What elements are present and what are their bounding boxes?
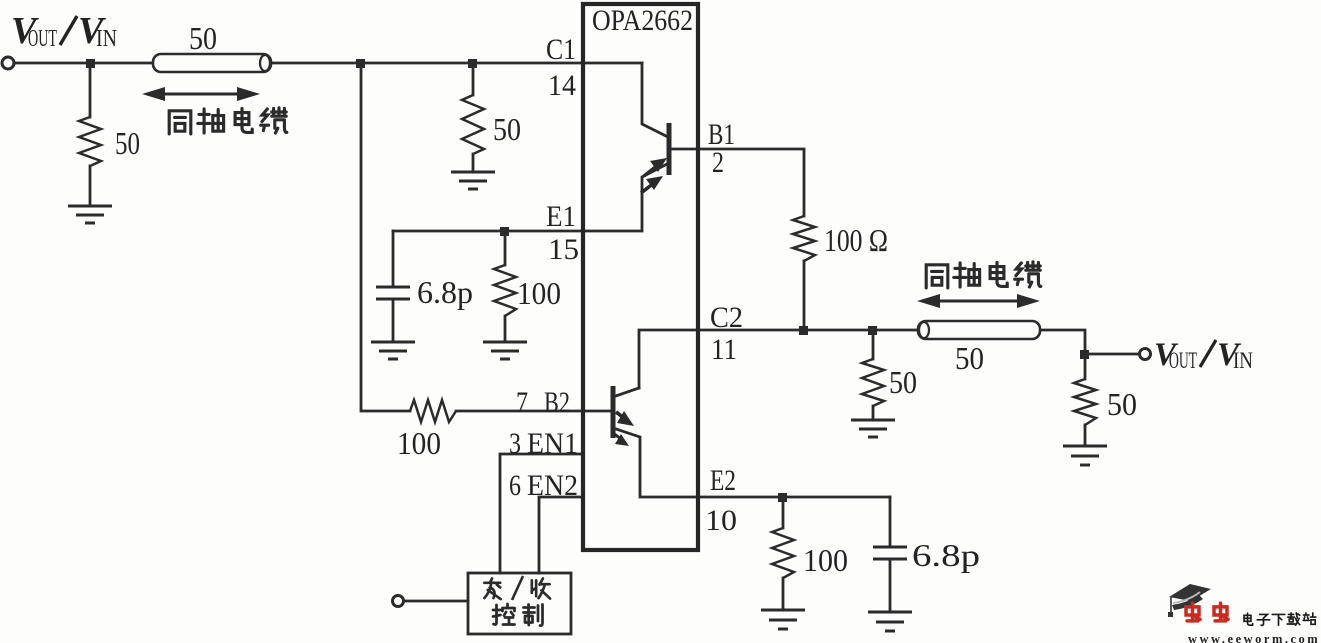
wire: Q1 base to B1 pin out to 100ohm resistor bbox=[669, 149, 804, 216]
resistor 100 (B2 series, horizontal) bbox=[410, 400, 456, 422]
resistor R4 50 (output termination) bbox=[1074, 379, 1096, 425]
wire: C2 node down to 50 resistor R3 bbox=[872, 330, 875, 359]
transistor Q1 base bar bbox=[667, 123, 672, 175]
resistor 100ohm (B1 to C2) bbox=[793, 216, 815, 261]
wire: 100 resistor bottom to ground bbox=[782, 578, 785, 610]
label 控制 (control box line 2) bbox=[493, 604, 543, 626]
label VOUT/VIN (input, top left) bbox=[11, 10, 117, 52]
wire: 100ohm resistor bottom to C2 node bbox=[803, 261, 806, 330]
logo 电子下载站 bbox=[1244, 613, 1316, 625]
label 发/收 (control box line 1) bbox=[484, 576, 550, 600]
transistor Q2 emitter arrow a bbox=[616, 411, 634, 426]
wire: E2 node down to 100 resistor bbox=[782, 497, 785, 528]
svg-text:OUT: OUT bbox=[1169, 348, 1197, 373]
resistor R2 50 (at C1) bbox=[462, 95, 484, 154]
node: input junction bbox=[86, 59, 95, 68]
coax arrow 1 (double headed) bbox=[142, 87, 260, 101]
svg-text:50: 50 bbox=[493, 111, 521, 147]
coax cable 2 end cap bbox=[919, 322, 929, 338]
svg-text:OUT: OUT bbox=[28, 26, 57, 52]
transistor Q2 base bar bbox=[611, 386, 616, 438]
wire: 6.8p cap2 bottom to ground bbox=[889, 559, 892, 612]
coax cable 1 end cap bbox=[260, 55, 270, 71]
resistor R3 50 (at C2) bbox=[862, 359, 884, 406]
label 同轴电缆 (coax2) bbox=[926, 262, 1041, 288]
wire: E1 node down to 100 resistor bbox=[504, 231, 507, 265]
capacitor C 6.8p (E2) plates bbox=[873, 547, 907, 559]
wire: output node down to 50 resistor R4 bbox=[1084, 354, 1087, 379]
node: C2 junction at R3 bbox=[868, 326, 877, 335]
svg-text:2: 2 bbox=[712, 146, 724, 179]
svg-text:IN: IN bbox=[96, 26, 117, 52]
wire: EN1 pin lead bbox=[500, 454, 583, 573]
wire: coax2 to output bend bbox=[1040, 330, 1139, 354]
svg-text:6.8p: 6.8p bbox=[417, 274, 473, 310]
coax arrow 2 (double headed) bbox=[917, 294, 1040, 308]
node: top line junction left bbox=[356, 59, 365, 68]
wire: C1 node down to 50 resistor R2 bbox=[472, 63, 475, 95]
wire: C2 line from Q2 collector out to coax2 bbox=[639, 330, 918, 388]
svg-text:50: 50 bbox=[889, 364, 917, 400]
svg-text:6: 6 bbox=[509, 469, 521, 502]
svg-text:14: 14 bbox=[548, 69, 576, 102]
ground (cap 6.8p E1) bbox=[371, 342, 415, 359]
wire: 50 resistor R2 bottom to ground bbox=[472, 154, 475, 172]
svg-text:www.eeworm.com: www.eeworm.com bbox=[1188, 632, 1320, 643]
wire: input node down to 50 resistor bbox=[89, 63, 92, 117]
svg-text:100: 100 bbox=[803, 542, 848, 578]
svg-text:C1: C1 bbox=[546, 33, 576, 66]
svg-text:50: 50 bbox=[1107, 386, 1137, 422]
label VOUT/VIN (output, right) bbox=[1154, 337, 1253, 373]
ground (100 at E1) bbox=[483, 342, 527, 359]
svg-text:E1: E1 bbox=[546, 200, 576, 233]
svg-text:EN2: EN2 bbox=[527, 469, 578, 502]
wire: Q2 emitter to E2 pin line bbox=[613, 428, 890, 497]
wire: input terminal to coax1 bbox=[14, 62, 153, 65]
resistor 100 (at E1) bbox=[494, 265, 516, 316]
logo graduation cap bbox=[1168, 584, 1211, 617]
wire: left long vertical from input line down to B2 row bbox=[361, 63, 410, 411]
svg-text:OPA2662: OPA2662 bbox=[592, 4, 693, 37]
ground (R3) bbox=[851, 420, 895, 437]
wire: 50 resistor R1 bottom to ground bbox=[89, 166, 92, 206]
svg-text:100: 100 bbox=[397, 425, 441, 461]
ground (cap 6.8p E2) bbox=[868, 612, 912, 631]
node: C2 junction at 100ohm bbox=[799, 326, 808, 335]
svg-text:B2: B2 bbox=[544, 386, 570, 419]
svg-text:50: 50 bbox=[115, 125, 140, 161]
label 同轴电缆 (coax1) bbox=[169, 108, 287, 134]
resistor 100 (at E2) bbox=[772, 528, 794, 578]
transistor Q1 emitter arrow b bbox=[641, 176, 663, 193]
svg-text:IN: IN bbox=[1233, 348, 1253, 373]
control box 发/收控制 bbox=[468, 573, 571, 634]
svg-text:EN1: EN1 bbox=[527, 427, 578, 460]
wire: E1 left branch down to 6.8p cap bbox=[392, 231, 395, 287]
wire: C1 internal vertical to Q1 collector bbox=[642, 63, 668, 137]
OPA2662 package box bbox=[583, 4, 698, 550]
svg-text:3: 3 bbox=[509, 427, 521, 460]
wire: 50 resistor R3 bottom to ground bbox=[872, 406, 875, 420]
capacitor C 6.8p (E1) plates bbox=[376, 287, 410, 299]
svg-text:15: 15 bbox=[548, 233, 579, 266]
node: E2 junction bbox=[778, 493, 787, 502]
svg-text:11: 11 bbox=[711, 333, 737, 366]
node: top line junction at R2 bbox=[468, 59, 477, 68]
resistor R1 50 (input termination) bbox=[79, 117, 101, 166]
svg-text:C2: C2 bbox=[710, 301, 743, 334]
svg-text:6.8p: 6.8p bbox=[912, 537, 980, 573]
terminal: control port bbox=[393, 596, 404, 607]
ground (R1) bbox=[68, 206, 112, 223]
svg-text:100: 100 bbox=[517, 275, 561, 311]
wire: coax1 to OPA2662 C1 pin bbox=[271, 62, 642, 65]
logo 虫虫 (red) bbox=[1186, 603, 1228, 621]
wire: E2 line to 6.8p cap2 bbox=[889, 497, 892, 547]
coax cable 2 body bbox=[918, 321, 1040, 339]
coax cable 1 body bbox=[153, 54, 271, 72]
wire: 50 resistor R4 bottom to ground bbox=[1084, 425, 1087, 446]
svg-text:50: 50 bbox=[955, 340, 984, 376]
node: output junction bbox=[1080, 350, 1089, 359]
transistor Q1 emitter arrow a bbox=[644, 158, 667, 176]
wire: EN2 pin lead bbox=[539, 497, 583, 573]
svg-text:50: 50 bbox=[189, 20, 217, 56]
svg-text:10: 10 bbox=[705, 504, 737, 537]
svg-text:100 Ω: 100 Ω bbox=[824, 222, 888, 258]
ground (100 at E2) bbox=[761, 610, 805, 629]
ground (R4) bbox=[1063, 446, 1107, 465]
wire: Q1 emitter to E1 pin bbox=[393, 163, 669, 231]
wire: Q2 collector slant bbox=[613, 388, 639, 397]
svg-text:E2: E2 bbox=[710, 464, 736, 497]
wire: 6.8p cap1 bottom to ground bbox=[392, 299, 395, 342]
wire: 100 resistor bottom to ground bbox=[504, 316, 507, 342]
node: E1 junction bbox=[500, 227, 509, 236]
terminal: input port bbox=[2, 57, 14, 69]
wire: control terminal to control box bbox=[404, 600, 468, 603]
terminal: output port bbox=[1140, 349, 1151, 360]
svg-text:7: 7 bbox=[516, 386, 528, 419]
ground (R2) bbox=[451, 172, 495, 189]
wire: 100 resistor to B2 pin into Q2 base bbox=[456, 410, 612, 413]
transistor Q2 emitter arrow b bbox=[612, 432, 629, 446]
